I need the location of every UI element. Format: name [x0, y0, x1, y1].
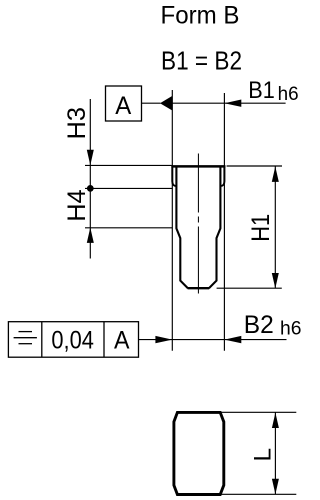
svg-text:H4: H4	[63, 189, 91, 222]
arrow H3 down	[87, 150, 94, 165]
datum leader	[142, 102, 161, 104]
dimension line B1	[172, 102, 285, 104]
part outline: bottom face	[188, 287, 210, 289]
FCF leader	[139, 339, 158, 341]
svg-text:h6: h6	[278, 83, 299, 105]
svg-text:A: A	[114, 326, 130, 354]
dot terminator H3/H4	[87, 185, 94, 192]
arrow H1 down	[272, 273, 279, 288]
dimension line L	[274, 412, 276, 494]
arrow H4 up	[87, 228, 94, 243]
part outline: left collar edge with undercut hook	[172, 166, 176, 187]
dimension line H3/H4 vertical	[89, 99, 91, 259]
extension line H1 bottom	[217, 287, 282, 289]
extension line H1 top	[227, 165, 282, 167]
part outline: right body edge, taper, lower edge, bottom chamfer	[209, 167, 221, 288]
extension line right vertical (B1/B2)	[223, 93, 225, 351]
extension line L bottom	[220, 493, 296, 495]
svg-text:Form B: Form B	[161, 2, 240, 30]
extension line low (H4 bottom)	[85, 227, 173, 229]
bottom view octagon outline	[174, 412, 224, 494]
arrow B1 (points left at right extension line)	[224, 100, 241, 107]
part outline: left body edge, taper, lower edge, bottom chamfer	[176, 167, 188, 288]
arrow B2 right (points left at right extension line)	[224, 336, 241, 343]
svg-text:H1: H1	[247, 214, 275, 242]
symmetry symbol	[14, 332, 37, 344]
svg-text:B1: B1	[248, 77, 274, 104]
svg-text:h6: h6	[280, 318, 302, 340]
svg-text:H3: H3	[63, 107, 91, 140]
svg-text:A: A	[115, 92, 131, 120]
arrow L down	[272, 479, 279, 494]
arrow H1 up	[272, 167, 279, 182]
extension line mid (H3/H4 shoulder)	[85, 187, 173, 189]
centerline main view	[197, 154, 199, 294]
part outline: right collar edge with undercut hook	[220, 166, 224, 187]
datum box A	[106, 86, 142, 121]
svg-text:L: L	[249, 448, 276, 462]
svg-text:B2: B2	[244, 311, 274, 339]
dimension line B2	[157, 339, 287, 341]
extension line left vertical (B1/B2)	[171, 90, 173, 351]
datum triangle on left extension line	[160, 96, 172, 111]
svg-text:B1 = B2: B1 = B2	[161, 46, 242, 76]
dimension line H1	[274, 166, 276, 288]
feature control frame	[8, 322, 138, 358]
arrow B2 left (points right at left extension line)	[155, 336, 172, 343]
extension line L top	[220, 411, 296, 413]
arrow L up	[272, 413, 279, 428]
extension line top face left (H3)	[85, 164, 172, 166]
svg-text:0,04: 0,04	[51, 326, 94, 354]
part outline: top face	[171, 165, 225, 168]
